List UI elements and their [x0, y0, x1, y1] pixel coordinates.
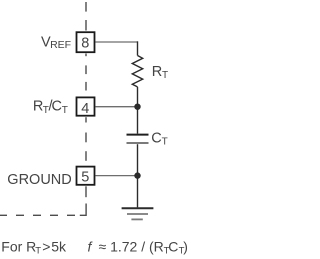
svg-text:4: 4 — [81, 101, 89, 117]
svg-text:T: T — [162, 137, 168, 148]
svg-text:>: > — [42, 238, 50, 254]
svg-text:For R: For R — [1, 238, 36, 254]
svg-text:T: T — [35, 245, 41, 256]
svg-text:C: C — [151, 130, 161, 146]
svg-text:R: R — [152, 64, 162, 80]
svg-text:8: 8 — [81, 36, 89, 52]
svg-text:GROUND: GROUND — [7, 172, 71, 188]
svg-text:T: T — [62, 105, 68, 116]
svg-text:C: C — [52, 99, 62, 115]
svg-text:C: C — [168, 238, 178, 254]
svg-text:T: T — [162, 70, 168, 81]
svg-text:≈ 1.72 / (R: ≈ 1.72 / (R — [99, 238, 164, 254]
svg-text:5k: 5k — [51, 238, 67, 254]
svg-text:5: 5 — [81, 169, 89, 185]
svg-text:REF: REF — [50, 39, 71, 51]
svg-text:): ) — [183, 238, 188, 254]
svg-text:f: f — [88, 238, 94, 254]
